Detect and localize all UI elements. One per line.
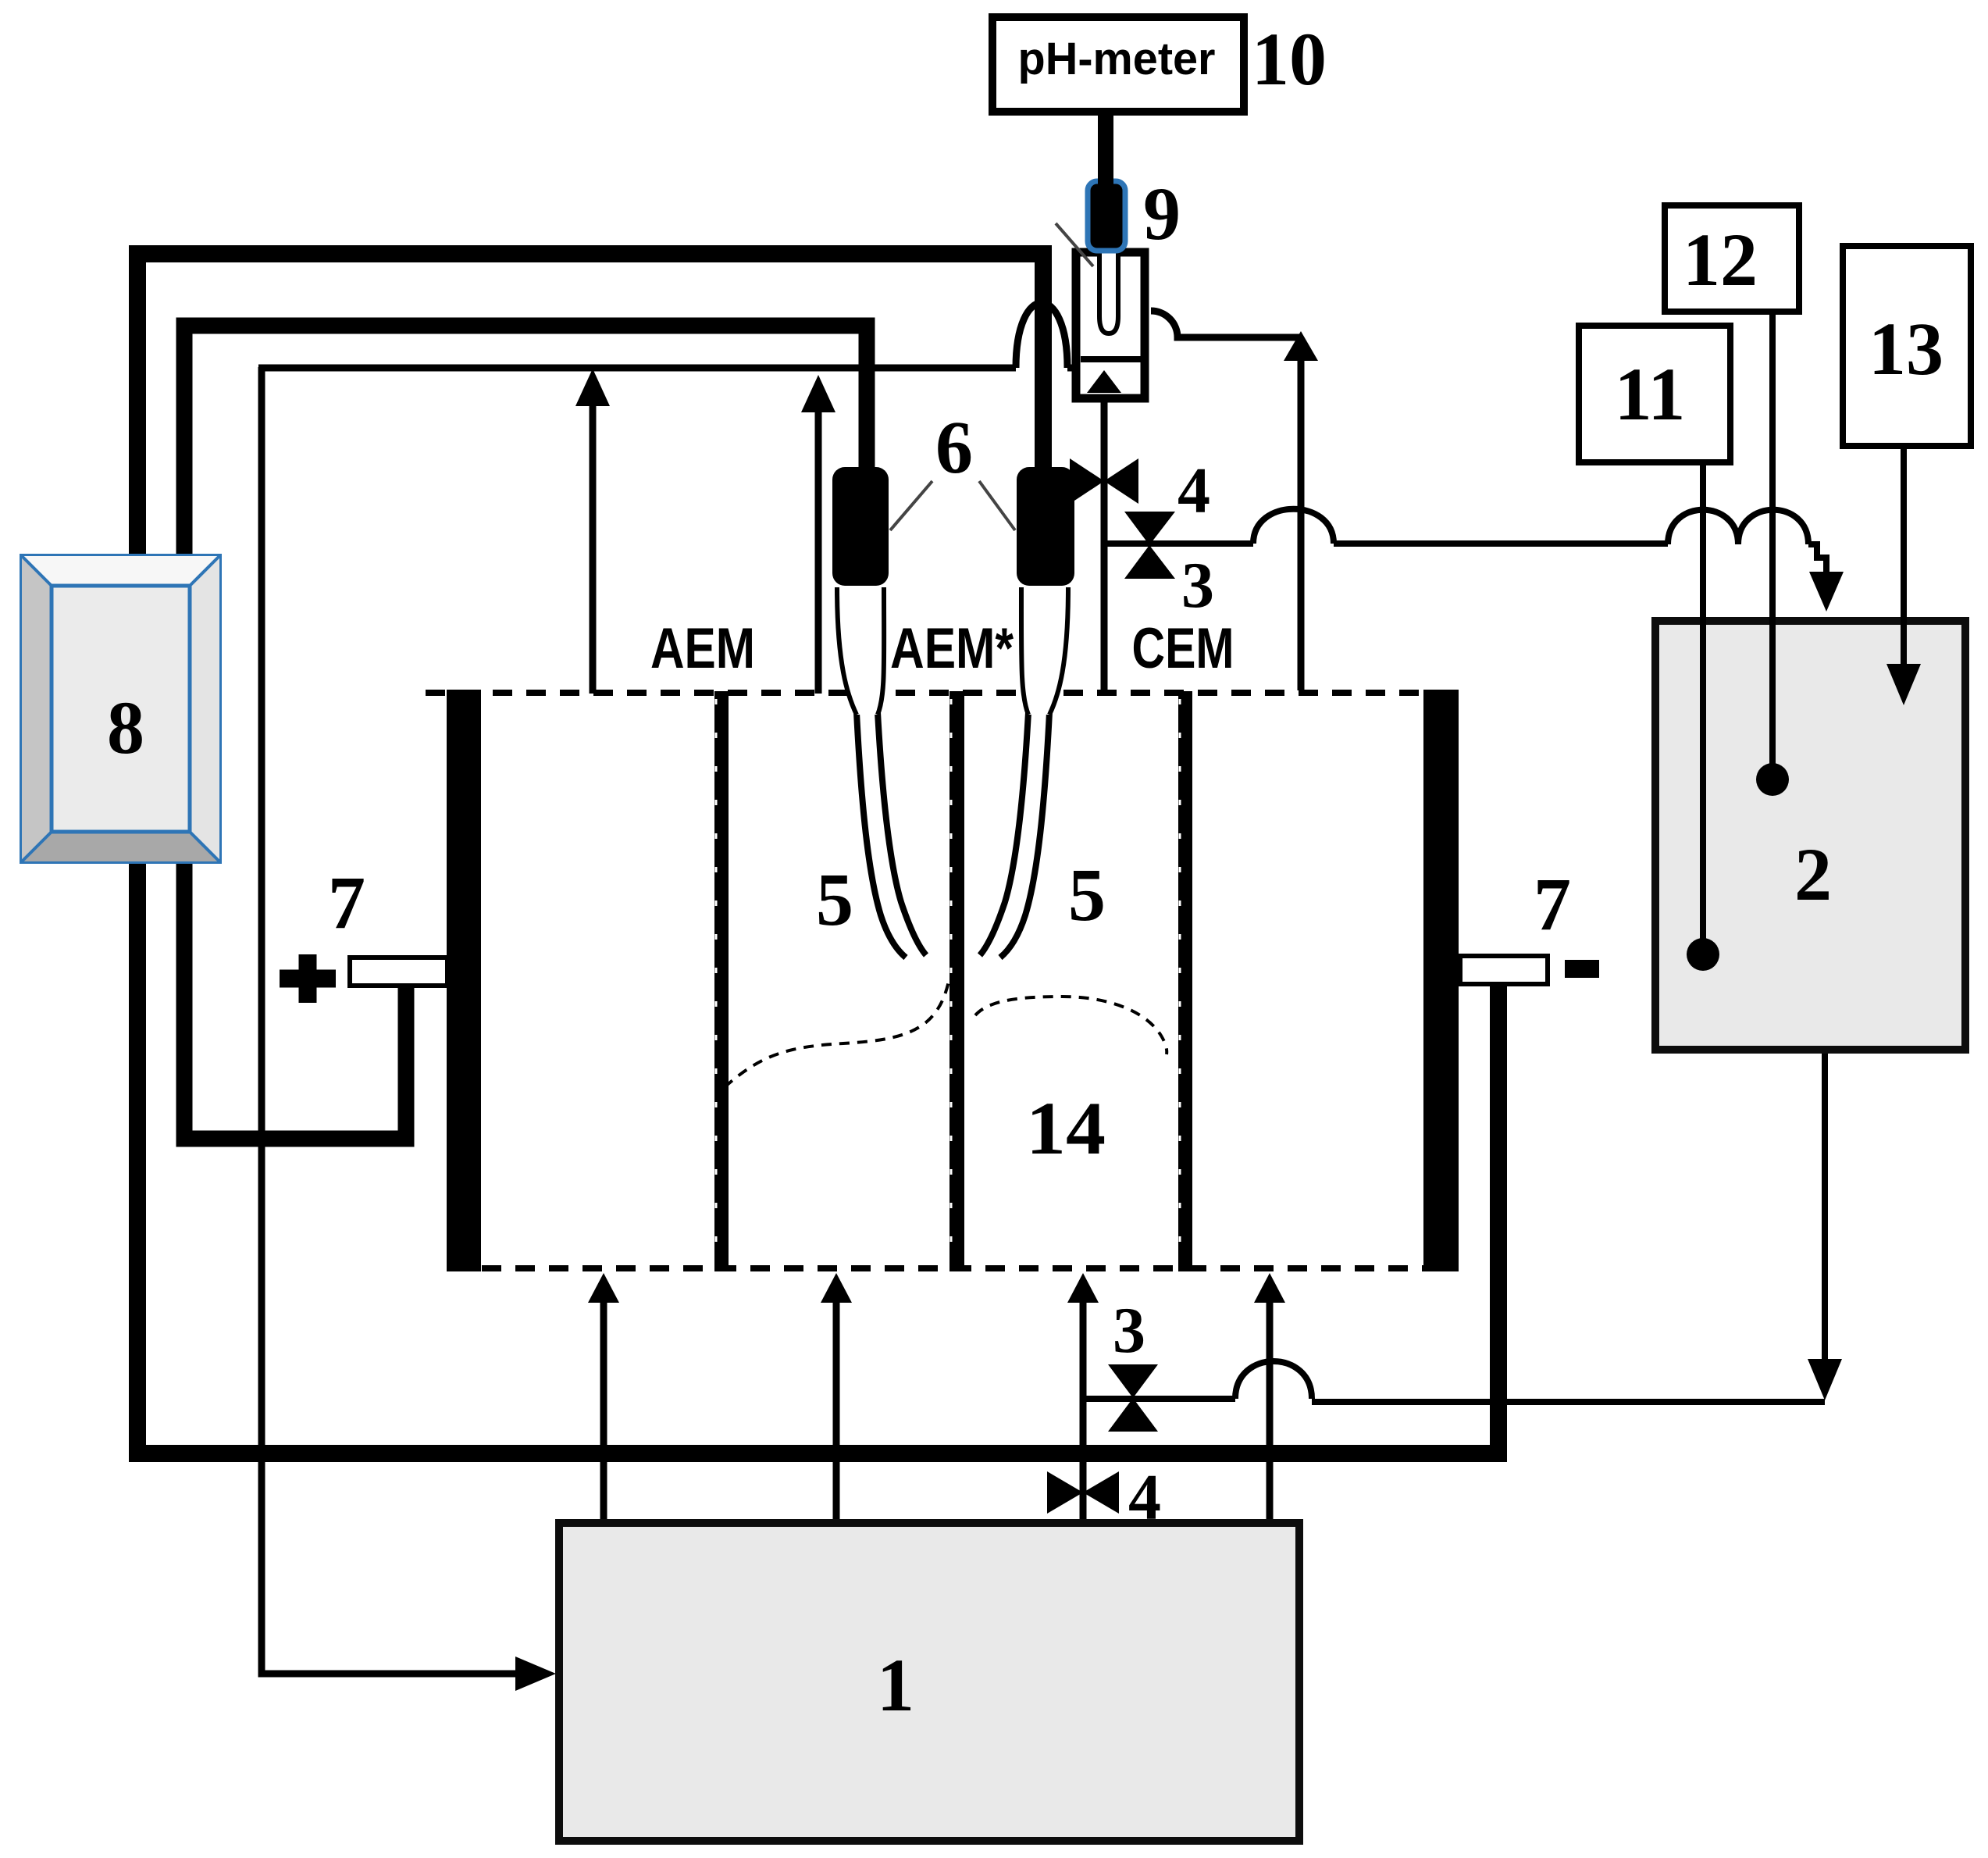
pH electrode 9 connector bbox=[1088, 181, 1125, 251]
wire: compartment C2 outlet arrow up bbox=[815, 412, 822, 694]
tank 2 bbox=[1655, 621, 1965, 1050]
up arrow inside vessel bbox=[1087, 370, 1121, 393]
leader tick across vessel corner bbox=[1056, 223, 1093, 266]
svg-text:5: 5 bbox=[816, 858, 853, 941]
svg-text:12: 12 bbox=[1683, 218, 1758, 301]
valve 3 (top, on horizontal line) bbox=[1124, 512, 1175, 545]
wire: sensor 11 wire into tank 2 with dot bbox=[1700, 462, 1706, 954]
svg-text:3: 3 bbox=[1181, 549, 1214, 622]
svg-text:AEM*: AEM* bbox=[890, 617, 1014, 680]
pH sampling vessel bbox=[1076, 252, 1145, 398]
svg-text:2: 2 bbox=[1794, 833, 1832, 916]
membrane AEM bbox=[714, 691, 729, 1271]
plus symbol bbox=[280, 954, 336, 1003]
svg-text:1: 1 bbox=[877, 1643, 914, 1727]
wire: thick tube from left electrode tab down, left, up past box 8, across top, down to sensor 6 left bbox=[184, 326, 867, 1139]
svg-text:7: 7 bbox=[1534, 862, 1571, 946]
svg-text:5: 5 bbox=[1068, 853, 1106, 936]
leader line 6 to left sensor bbox=[890, 481, 932, 530]
wire: thick tube loop from right electrode tab down, along bottom, up left side, across top, down to sensor 6 right bbox=[137, 254, 1498, 1453]
box 13 bbox=[1843, 246, 1971, 446]
arrowhead into tank 1 bbox=[515, 1657, 556, 1691]
box 11 bbox=[1579, 326, 1730, 462]
wire: compartment C1 outlet arrow up bbox=[590, 406, 597, 694]
dashed liquid level curve right compartment bbox=[975, 997, 1167, 1054]
svg-text:8: 8 bbox=[107, 686, 144, 769]
wire: bottom thin line from C3 inlet junction right through valve 3 bottom, hump, to tank 2 down line bbox=[1083, 1361, 1825, 1402]
svg-text:7: 7 bbox=[328, 861, 365, 944]
electrode tip inside vessel bbox=[1099, 252, 1118, 333]
valve 4 (bottom, on C3 inlet line) bbox=[1047, 1471, 1083, 1514]
sensor 6 left glass bulb bbox=[837, 587, 884, 715]
svg-text:CEM: CEM bbox=[1132, 617, 1234, 680]
wire: sensor 12 wire into tank 2 with dot bbox=[1769, 312, 1776, 779]
sensor 6 left body bbox=[832, 467, 889, 586]
liquid level line in vessel bbox=[1081, 356, 1141, 362]
sensor 6 right body bbox=[1017, 467, 1074, 586]
leader line 6 to right sensor bbox=[979, 481, 1015, 530]
svg-text:AEM: AEM bbox=[650, 617, 755, 680]
wire: thin line #3 from left vertical to pH vessel with hump over tube bbox=[258, 303, 1074, 368]
svg-text:14: 14 bbox=[1026, 1086, 1106, 1170]
svg-text:3: 3 bbox=[1113, 1294, 1145, 1367]
valve 3 (bottom) bbox=[1108, 1364, 1158, 1398]
svg-text:9: 9 bbox=[1143, 172, 1181, 255]
dashed liquid level curve left compartment bbox=[725, 978, 949, 1087]
capillary 5 left bbox=[857, 712, 906, 958]
wire: line 13 into tank 2 with down arrow bbox=[1901, 446, 1907, 668]
electrode tab right (-) bbox=[1460, 956, 1548, 984]
wire: tank 1 outlet up arrows to cell bottom C1 bbox=[600, 1296, 607, 1525]
wire: thin line from drain junction right through valve 3, hump, to tank 2 with down arrow bbox=[1104, 509, 1826, 592]
svg-text:13: 13 bbox=[1869, 307, 1943, 391]
wire: inlet line C3 from tank 1 up through valve 4 and valve 3 junction to cell bottom bbox=[1080, 1296, 1087, 1525]
svg-text:4: 4 bbox=[1128, 1461, 1161, 1534]
pH-meter cable bbox=[1098, 112, 1113, 185]
membrane CEM bbox=[1178, 691, 1192, 1271]
box 12 bbox=[1665, 205, 1799, 312]
svg-text:11: 11 bbox=[1615, 352, 1686, 436]
sensor 6 right glass bulb bbox=[1021, 587, 1068, 715]
svg-text:6: 6 bbox=[935, 405, 973, 489]
valve 4 (top, on vessel drain line) bbox=[1070, 458, 1104, 504]
tank 1 bbox=[559, 1523, 1299, 1841]
wire: tank 1 outlet up arrow C4 bbox=[1267, 1296, 1274, 1525]
power supply box 8 (3D) bbox=[22, 556, 219, 861]
cell top dashed boundary bbox=[426, 690, 1459, 696]
capillary 5 right bbox=[1000, 712, 1049, 958]
membrane AEM* bbox=[949, 691, 964, 1271]
cell bottom dashed boundary bbox=[482, 1265, 1459, 1271]
wire: compartment C4 outlet up to junction, horizontal to pH vessel over wall arc bbox=[1151, 311, 1301, 690]
wire: tank 1 outlet up arrow C2 bbox=[833, 1296, 840, 1525]
electrode tab left (+) bbox=[350, 958, 447, 986]
svg-text:4: 4 bbox=[1177, 455, 1210, 527]
wire: pH vessel drain line down to cell top bbox=[1101, 402, 1108, 690]
pH-meter box 10 bbox=[992, 17, 1244, 112]
svg-text:pH-meter: pH-meter bbox=[1018, 34, 1216, 84]
electrode left (anode) bbox=[447, 690, 481, 1271]
wire: thin tube from top line left vertical down to bottom feed into tank 1 bbox=[262, 367, 540, 1674]
svg-text:10: 10 bbox=[1252, 17, 1327, 101]
wire: tank 2 bottom down to bottom thin line with down arrow bbox=[1822, 1053, 1828, 1363]
minus symbol bbox=[1565, 960, 1599, 978]
electrode right (cathode) bbox=[1423, 690, 1459, 1271]
